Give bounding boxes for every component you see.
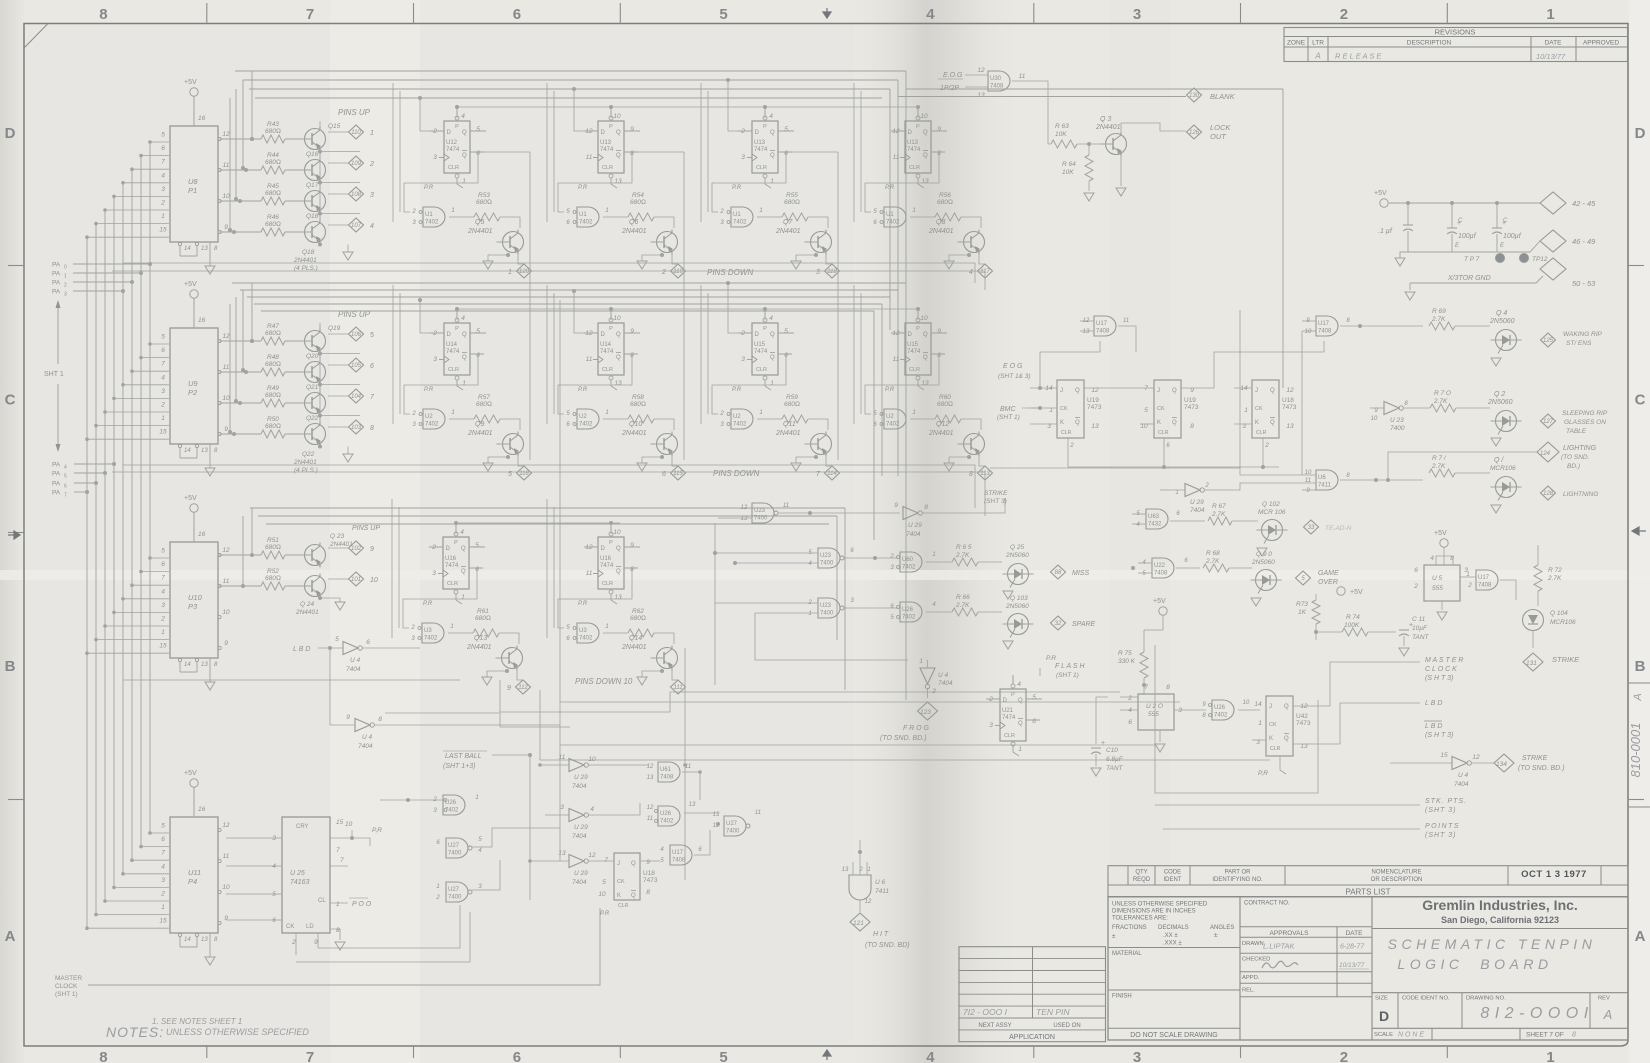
svg-text:7I2 - OOO I: 7I2 - OOO I	[963, 1007, 1008, 1017]
svg-text:D: D	[5, 125, 16, 142]
svg-text:R 63: R 63	[1055, 123, 1069, 130]
svg-text:6: 6	[161, 347, 165, 354]
svg-text:11: 11	[586, 356, 593, 363]
svg-text:U 29: U 29	[574, 774, 588, 781]
svg-text:CODE IDENT NO.: CODE IDENT NO.	[1402, 996, 1450, 1002]
resistor R61 680ohm	[448, 632, 473, 634]
svg-text:9: 9	[937, 126, 941, 133]
svg-text:P.R: P.R	[1046, 655, 1056, 662]
svg-text:14: 14	[184, 937, 191, 943]
diamond 116	[517, 466, 532, 480]
diamond 131 strike	[1523, 653, 1543, 671]
svg-text:104: 104	[351, 394, 362, 400]
gate U26 7402 after 555	[1212, 700, 1234, 720]
svg-text:Q16: Q16	[306, 151, 319, 158]
svg-text:STK. PTS.: STK. PTS.	[1425, 798, 1467, 805]
svg-text:P4: P4	[188, 877, 197, 886]
svg-text:U 4: U 4	[1458, 772, 1469, 779]
svg-text:U18: U18	[1282, 397, 1294, 404]
gate U23 7400 miss	[818, 548, 840, 568]
ground under R64	[1084, 193, 1094, 201]
scale row	[1372, 1027, 1628, 1029]
svg-text:3: 3	[432, 570, 436, 577]
svg-text:E.O.G: E.O.G	[943, 72, 963, 79]
svg-text:10: 10	[222, 395, 230, 402]
svg-text:U17: U17	[1478, 575, 1490, 581]
svg-text:13: 13	[614, 594, 622, 601]
svg-text:CLR: CLR	[602, 367, 613, 373]
svg-text:8: 8	[378, 716, 382, 723]
svg-text:7408: 7408	[1318, 329, 1332, 335]
svg-text:125: 125	[1543, 338, 1554, 344]
svg-text:7408: 7408	[1478, 583, 1492, 589]
row1 top bus lines	[235, 70, 906, 72]
emitter gnd	[660, 455, 664, 459]
inverter U29 7404 a	[569, 759, 584, 772]
svg-text:1: 1	[370, 130, 374, 137]
SCR Q4 2N5060	[1496, 330, 1517, 351]
svg-text:CK: CK	[286, 924, 294, 930]
svg-text:Q20: Q20	[306, 353, 319, 360]
svg-text:1: 1	[161, 415, 165, 422]
svg-text:7402: 7402	[579, 636, 593, 642]
svg-text:2N4401: 2N4401	[928, 430, 954, 437]
emitter gnd	[967, 253, 971, 257]
resistor R51 680ohm	[219, 554, 261, 556]
svg-text:CHECKED: CHECKED	[1242, 957, 1270, 963]
emitter junction	[318, 445, 322, 449]
svg-text:APPLICATION: APPLICATION	[1009, 1034, 1055, 1041]
svg-text:2: 2	[719, 411, 724, 417]
svg-text:P: P	[916, 124, 920, 130]
diamond 118	[825, 264, 840, 278]
jk flip-flop U19 7473 second	[1154, 380, 1181, 438]
svg-text:U9: U9	[188, 379, 198, 388]
svg-text:7: 7	[64, 493, 67, 499]
svg-text:POINTS: POINTS	[1425, 823, 1460, 830]
svg-text:U1: U1	[425, 212, 433, 218]
svg-text:Q8: Q8	[936, 219, 945, 226]
diamond 111	[671, 680, 686, 694]
svg-text:R55: R55	[786, 192, 798, 199]
svg-text:U15: U15	[754, 342, 766, 348]
svg-text:U1: U1	[733, 212, 741, 218]
svg-text:1: 1	[932, 552, 935, 558]
svg-text:127: 127	[1543, 419, 1554, 425]
svg-text:(TO SND. BD.): (TO SND. BD.)	[880, 735, 927, 742]
svg-text:D: D	[601, 332, 606, 338]
svg-text:P.R: P.R	[424, 387, 434, 393]
svg-text:R48: R48	[267, 354, 279, 361]
svg-text:7474: 7474	[1002, 715, 1016, 721]
svg-text:P: P	[609, 124, 613, 130]
svg-text:7400: 7400	[1390, 425, 1405, 432]
emitter junction	[318, 352, 322, 356]
svg-text:Q: Q	[1075, 388, 1080, 394]
svg-text:7402: 7402	[424, 636, 438, 642]
svg-text:P.R: P.R	[732, 185, 742, 191]
svg-text:R54: R54	[632, 192, 644, 199]
svg-text:7474: 7474	[907, 349, 921, 355]
flip-flop U14 7474	[444, 323, 470, 375]
finish section	[1108, 989, 1240, 991]
svg-text:C10: C10	[1106, 747, 1118, 754]
svg-text:P.R: P.R	[578, 601, 588, 607]
jk flip-flop U18 7473 bottom	[614, 853, 640, 900]
svg-text:1: 1	[161, 213, 165, 220]
gate U2 7402	[423, 409, 445, 429]
svg-text:2N4401: 2N4401	[466, 644, 492, 651]
diamond tag 105	[319, 354, 321, 360]
svg-text:(S H T 3): (S H T 3)	[1425, 675, 1453, 682]
svg-text:10/13/77: 10/13/77	[1536, 52, 1566, 61]
svg-text:U2: U2	[579, 414, 587, 420]
svg-text:13: 13	[201, 937, 208, 943]
resistor R55 680ohm	[757, 216, 782, 218]
jk flip-flop U18 7473	[1252, 380, 1279, 438]
svg-text:5: 5	[161, 823, 165, 830]
svg-text:D: D	[447, 332, 452, 338]
svg-text:P.R: P.R	[885, 185, 895, 191]
row frame verticals	[553, 91, 555, 212]
svg-text:P,R: P,R	[372, 827, 382, 834]
emitter gnd	[660, 253, 664, 257]
svg-text:10: 10	[613, 113, 621, 120]
svg-text:DECIMALS: DECIMALS	[1158, 925, 1189, 931]
svg-text:7404: 7404	[572, 833, 587, 840]
svg-text:D: D	[446, 546, 451, 552]
svg-text:1: 1	[451, 410, 454, 416]
svg-text:7402: 7402	[902, 565, 916, 571]
svg-text:R51: R51	[267, 537, 279, 544]
preset wire from gate to U14	[404, 354, 484, 414]
svg-text:PA: PA	[52, 289, 61, 296]
diamond tag 104	[319, 385, 321, 391]
svg-text:13: 13	[921, 380, 929, 387]
svg-text:9: 9	[314, 939, 318, 946]
preset wire from gate to U14	[558, 354, 638, 414]
svg-text:Q18: Q18	[306, 213, 319, 220]
svg-text:2N4401: 2N4401	[621, 228, 647, 235]
svg-text:12: 12	[1300, 703, 1308, 710]
svg-text:Q: Q	[462, 130, 467, 136]
svg-text:R 66: R 66	[956, 594, 970, 601]
svg-text:7404: 7404	[938, 680, 953, 687]
svg-text:(SHT 3): (SHT 3)	[1425, 832, 1457, 839]
svg-text:1: 1	[1244, 407, 1248, 414]
emitter junction	[318, 383, 322, 387]
svg-text:7400: 7400	[726, 829, 740, 835]
svg-text:BMC: BMC	[1000, 406, 1017, 413]
resistor R45 680ohm	[238, 199, 242, 203]
gnd under Q102	[1257, 548, 1267, 556]
svg-text:U19: U19	[1087, 397, 1099, 404]
svg-text:7404: 7404	[1190, 507, 1205, 514]
svg-text:J: J	[1269, 704, 1272, 710]
svg-text:10µF: 10µF	[1412, 625, 1428, 632]
svg-text:U13: U13	[907, 140, 919, 146]
svg-text:R56: R56	[939, 192, 951, 199]
svg-text:3: 3	[1133, 1049, 1141, 1063]
svg-text:P3: P3	[188, 602, 198, 611]
gate U1 7402	[423, 207, 445, 227]
transistor Q8 2N4401	[961, 217, 981, 228]
svg-text:Q21: Q21	[306, 384, 319, 391]
diamond 120	[517, 264, 532, 278]
svg-text:U8: U8	[188, 177, 198, 186]
svg-text:5: 5	[475, 542, 479, 549]
svg-text:DRAWING NO.: DRAWING NO.	[1466, 996, 1506, 1002]
svg-text:2N4401: 2N4401	[1095, 124, 1121, 131]
svg-text:R53: R53	[478, 192, 490, 199]
svg-text:101: 101	[351, 577, 361, 583]
svg-text:R58: R58	[632, 394, 644, 401]
svg-text:7474: 7474	[907, 147, 921, 153]
svg-text:7: 7	[161, 361, 165, 368]
svg-text:U26: U26	[1214, 705, 1226, 711]
svg-text:Q 25: Q 25	[1010, 544, 1024, 551]
svg-text:M A S T E R: M A S T E R	[1425, 657, 1463, 664]
zone tick bottom	[1240, 1046, 1242, 1058]
svg-text:15: 15	[336, 819, 344, 826]
svg-text:74163: 74163	[290, 879, 310, 886]
resistor R69 2.7K	[1429, 322, 1455, 330]
gate U26 7402 spare	[900, 602, 922, 622]
svg-text:F R O G: F R O G	[903, 725, 929, 732]
svg-text:R 64: R 64	[1062, 161, 1076, 168]
svg-text:U2: U2	[733, 414, 741, 420]
svg-text:5: 5	[161, 548, 165, 555]
preset wire from gate to U15	[712, 354, 792, 414]
diamond 123 frog	[918, 702, 938, 720]
flip-flop U21 7474	[1000, 689, 1026, 741]
transistor Q10 2N4401	[654, 419, 674, 430]
row frame verticals	[860, 293, 862, 414]
svg-text:1: 1	[462, 178, 466, 185]
clock drop	[456, 107, 458, 118]
transistor Q17 2N4401	[305, 191, 326, 212]
svg-text:D: D	[447, 130, 452, 136]
svg-text:U 29: U 29	[574, 870, 588, 877]
svg-text:Q: Q	[770, 130, 775, 136]
svg-text:Q: Q	[616, 569, 621, 575]
svg-text:U15: U15	[907, 342, 919, 348]
svg-text:CLR: CLR	[602, 581, 613, 587]
diamond tag 107	[319, 214, 321, 220]
svg-text:MCR106: MCR106	[1490, 465, 1516, 472]
gate U23 7400 strike a	[752, 503, 774, 523]
svg-text:7402: 7402	[425, 220, 439, 226]
svg-text:LIGHTING: LIGHTING	[1563, 445, 1597, 452]
resistor R66 2.7K	[952, 608, 978, 616]
svg-text:CLR: CLR	[1061, 430, 1072, 436]
svg-text:11: 11	[1019, 73, 1026, 80]
diamond 33 frog tag	[1304, 520, 1319, 534]
svg-text:P.R: P.R	[424, 185, 434, 191]
svg-text:5: 5	[784, 126, 788, 133]
row frame verticals	[553, 507, 555, 628]
inverter U29 7404 c	[569, 855, 584, 868]
svg-text:R46: R46	[267, 214, 279, 221]
svg-text:9: 9	[224, 640, 228, 647]
cap 100uf 2	[1492, 227, 1502, 229]
svg-text:C: C	[1635, 392, 1646, 409]
svg-text:680Ω: 680Ω	[630, 401, 646, 408]
svg-text:LAST BALL: LAST BALL	[445, 753, 482, 760]
jk flip-flop U42 7473	[1266, 696, 1293, 756]
svg-text:NEXT ASSY: NEXT ASSY	[978, 1023, 1011, 1029]
svg-text:L B D: L B D	[293, 646, 310, 653]
+5V for U5	[1440, 539, 1448, 547]
svg-text:D: D	[1379, 1008, 1389, 1024]
svg-text:2: 2	[160, 891, 165, 898]
svg-text:Q 4: Q 4	[1496, 310, 1507, 317]
gnd under Q4	[1495, 351, 1497, 355]
bus junction dots	[455, 105, 459, 109]
do not scale drawing	[1108, 1027, 1240, 1029]
diamond 117	[978, 264, 993, 278]
row frame verticals	[707, 91, 709, 212]
svg-text:U14: U14	[446, 342, 458, 348]
svg-text:14: 14	[184, 448, 191, 454]
svg-text:+: +	[1101, 740, 1105, 747]
resistor R58 680ohm	[603, 418, 628, 420]
svg-text:C: C	[1458, 218, 1463, 224]
svg-text:2N4401: 2N4401	[467, 228, 493, 235]
svg-text:APPROVED: APPROVED	[1583, 40, 1619, 47]
svg-text:2: 2	[858, 867, 863, 873]
svg-text:680Ω: 680Ω	[937, 401, 953, 408]
svg-text:CL: CL	[318, 898, 326, 904]
svg-text:LD: LD	[306, 924, 314, 930]
preset wire from gate to U12	[404, 152, 484, 212]
svg-text:J: J	[1255, 388, 1258, 394]
wire LBD vertical	[329, 648, 331, 725]
gate U61 7408	[658, 762, 680, 782]
transistor Q18 2N4401	[305, 222, 326, 243]
svg-text:1: 1	[161, 629, 165, 636]
zone tick top	[1240, 3, 1242, 24]
transistor Q3 2N4401	[1106, 134, 1127, 155]
svg-text:LOGIC BOARD: LOGIC BOARD	[1397, 956, 1552, 972]
svg-text:PA: PA	[52, 490, 61, 497]
svg-text:R 7 O: R 7 O	[1434, 390, 1451, 397]
row3 top bus lines	[250, 507, 845, 509]
svg-text:R 69: R 69	[1432, 308, 1446, 315]
svg-text:TOLERANCES ARE:: TOLERANCES ARE:	[1112, 916, 1168, 922]
svg-text:U17: U17	[1096, 321, 1108, 327]
svg-text:CK: CK	[1157, 406, 1165, 412]
svg-text:15: 15	[1440, 752, 1448, 759]
svg-text:10: 10	[613, 529, 621, 536]
diamond 126 LOCK OUT	[1187, 125, 1202, 139]
diamond 5 game over	[1296, 571, 1311, 585]
diamond 32 SPARE	[1051, 616, 1066, 630]
svg-text:7: 7	[161, 575, 165, 582]
svg-text:P: P	[1011, 692, 1015, 698]
svg-text:J: J	[617, 861, 620, 867]
svg-text:680Ω: 680Ω	[265, 159, 281, 166]
svg-text:U 2 O: U 2 O	[1146, 703, 1163, 710]
svg-text:Q7: Q7	[783, 219, 793, 226]
svg-text:Q 3: Q 3	[1100, 116, 1111, 123]
svg-text:L B D: L B D	[1425, 723, 1442, 730]
svg-text:UNLESS OTHERWISE SPECIFIED: UNLESS OTHERWISE SPECIFIED	[166, 1027, 309, 1037]
svg-text:2N4401: 2N4401	[928, 228, 954, 235]
emitter gnd	[814, 253, 818, 257]
svg-text:CLR: CLR	[618, 903, 629, 909]
svg-text:5: 5	[272, 891, 276, 898]
svg-text:7400: 7400	[820, 561, 834, 567]
svg-text:6: 6	[513, 1049, 521, 1063]
emitter gnd	[660, 669, 664, 673]
application table	[959, 947, 1106, 1042]
svg-text:A: A	[1603, 1007, 1613, 1022]
row1 interconnect verticals	[422, 98, 424, 132]
collector bus vertical	[319, 152, 321, 220]
svg-text:7402: 7402	[425, 422, 439, 428]
svg-text:5: 5	[476, 328, 480, 335]
svg-text:U27: U27	[448, 843, 460, 849]
svg-text:Q: Q	[770, 355, 775, 361]
svg-text:U1: U1	[886, 212, 894, 218]
svg-text:MATERIAL: MATERIAL	[1112, 951, 1142, 957]
svg-text:OVER: OVER	[1318, 579, 1338, 586]
svg-text:9: 9	[507, 685, 511, 692]
svg-text:4: 4	[461, 315, 465, 322]
svg-text:11: 11	[783, 503, 789, 509]
svg-text:U11: U11	[188, 868, 201, 877]
gate U17 7408 upper	[1094, 316, 1116, 336]
zone tick left	[8, 265, 24, 267]
svg-text:U23: U23	[820, 553, 832, 559]
wire from U30 to R63	[1012, 81, 1051, 144]
svg-text:12: 12	[588, 852, 596, 859]
row2 emitter rails	[123, 465, 975, 508]
resistor R74 100K	[1342, 628, 1368, 636]
svg-text:CK: CK	[1060, 406, 1068, 412]
svg-text:1: 1	[451, 208, 454, 214]
svg-text:CLR: CLR	[1256, 430, 1267, 436]
svg-text:Q: Q	[462, 153, 467, 159]
svg-text:CK: CK	[617, 879, 625, 885]
svg-text:BLANK: BLANK	[1210, 92, 1236, 101]
svg-text:A: A	[1314, 52, 1320, 61]
zone tick bottom	[1446, 1046, 1448, 1058]
svg-text:680Ω: 680Ω	[937, 199, 953, 206]
svg-text:CLR: CLR	[1270, 746, 1281, 752]
IC U11 (P4)	[170, 817, 218, 933]
resistor R71 2.7K	[1429, 469, 1455, 477]
svg-text:3: 3	[161, 388, 165, 395]
ladder vertical col3	[778, 151, 838, 153]
svg-text:PINS DOWN: PINS DOWN	[707, 268, 753, 277]
flip-flop U12 7474	[444, 121, 470, 173]
svg-text:Q 2: Q 2	[1494, 391, 1505, 398]
+5V supply for U11	[190, 779, 198, 787]
row2 interconnect stubs	[420, 300, 430, 333]
svg-text:7473: 7473	[1087, 404, 1102, 411]
gate U17 7408 bottom	[670, 845, 692, 865]
svg-text:13: 13	[614, 380, 622, 387]
svg-text:REQD: REQD	[1133, 877, 1151, 883]
svg-text:107: 107	[351, 223, 362, 229]
svg-text:(TO SND. BD.): (TO SND. BD.)	[1518, 765, 1565, 772]
svg-text:6: 6	[64, 484, 67, 490]
svg-text:CLR: CLR	[602, 165, 613, 171]
svg-text:U 5: U 5	[1432, 575, 1443, 582]
svg-text:3: 3	[64, 292, 67, 298]
